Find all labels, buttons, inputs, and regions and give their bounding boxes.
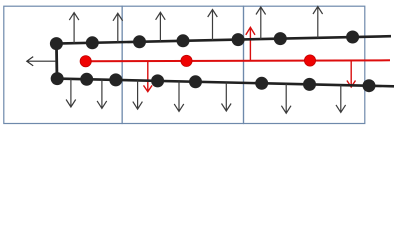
top wire charge nodes	[50, 31, 359, 51]
table cell borders	[4, 6, 365, 123]
node R3	[304, 55, 315, 66]
node R2	[181, 55, 192, 66]
upward field arrows	[69, 7, 322, 44]
node T2	[86, 36, 99, 49]
downward field arrows	[66, 79, 346, 113]
up arrow U2	[113, 13, 123, 42]
node B8	[363, 79, 376, 92]
down arrow D7	[336, 85, 346, 112]
down arrow D6	[281, 84, 291, 113]
red down arrow 2	[347, 60, 356, 87]
up arrow U4	[208, 10, 218, 41]
cell 3	[244, 6, 365, 123]
node B5	[189, 75, 202, 88]
cell 1	[4, 6, 122, 123]
center conductor wire (red)	[85, 59, 390, 62]
up arrow U1	[69, 13, 79, 44]
node T1	[50, 37, 63, 50]
left current arrow	[27, 57, 56, 66]
node B6	[255, 77, 268, 90]
up arrow U6	[313, 7, 323, 38]
top conductor wire	[56, 36, 391, 43]
center wire charge nodes (red)	[80, 55, 316, 67]
up arrow U5	[256, 7, 266, 39]
red down arrow 1	[144, 61, 153, 92]
node T4	[177, 34, 190, 47]
node B1	[51, 72, 64, 85]
cell 2	[122, 6, 243, 123]
down arrow D3	[133, 80, 143, 109]
node T5	[232, 33, 245, 46]
node B2	[80, 73, 93, 86]
down arrow D4	[174, 81, 184, 111]
node T7	[346, 31, 359, 44]
node T3	[133, 35, 146, 48]
down arrow D5	[222, 83, 232, 112]
bottom conductor wire	[57, 79, 395, 87]
red up arrow	[246, 27, 255, 61]
down arrow D2	[97, 80, 107, 109]
down arrow D1	[66, 79, 76, 107]
node B3	[109, 73, 122, 86]
node B7	[303, 78, 316, 91]
left end connector wire	[55, 42, 58, 79]
node B4	[151, 74, 164, 87]
up arrow U3	[156, 12, 166, 41]
bottom wire charge nodes	[51, 72, 376, 92]
node R1	[80, 56, 91, 67]
node T6	[274, 32, 287, 45]
